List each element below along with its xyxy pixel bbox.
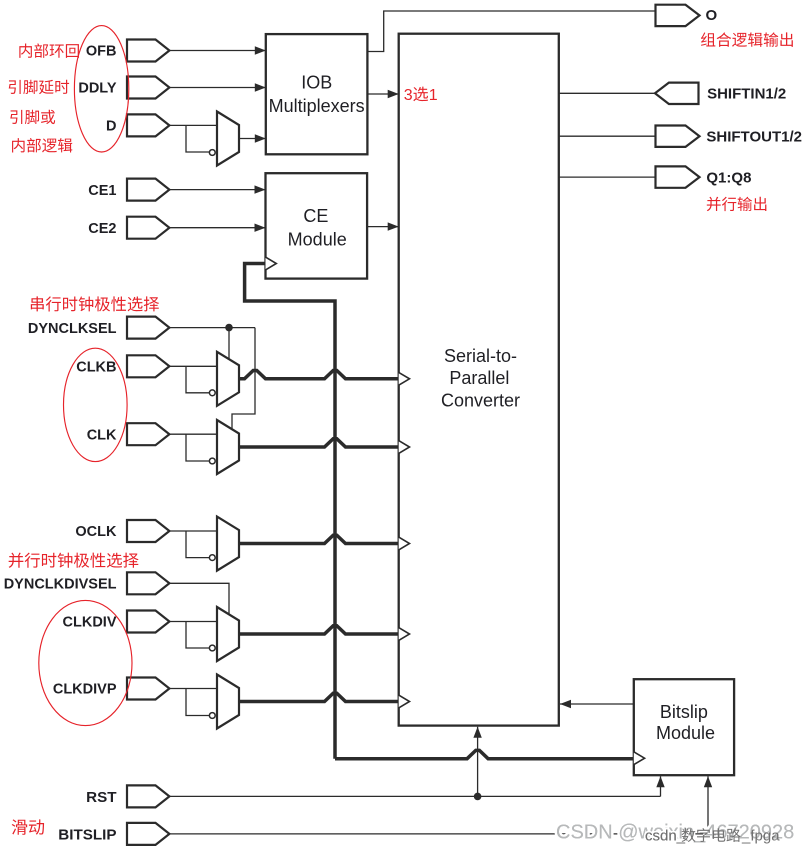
svg-text:RST: RST	[86, 789, 117, 806]
svg-text:Serial-to-: Serial-to-	[444, 346, 517, 366]
svg-text:_fpga: _fpga	[741, 828, 780, 845]
svg-text:Module: Module	[656, 723, 715, 743]
svg-text:Module: Module	[288, 229, 347, 249]
wire DYNCLKDIVSEL to mux M5 select	[169, 583, 229, 615]
svg-text:OCLK: OCLK	[75, 524, 117, 540]
junction dot RST	[474, 793, 482, 801]
input port SHIFTIN1/2	[655, 83, 699, 104]
svg-text:Q1:Q8: Q1:Q8	[706, 170, 751, 187]
svg-text:CLK: CLK	[87, 427, 117, 443]
inverter bubble of mux M5 (CLKDIV)	[209, 645, 215, 651]
wire IOB to converter	[367, 93, 398, 95]
wire CLKDIV to mux M5	[169, 621, 217, 623]
wire Bitslip to converter	[560, 703, 634, 705]
wire converter to Q1:Q8	[559, 176, 656, 178]
input port DDLY	[127, 77, 169, 99]
wire BITSLIP to Bitslip bottom	[169, 776, 709, 834]
wire IOB to O output	[367, 11, 655, 52]
clock chevron Bitslip Module	[634, 752, 645, 765]
wire CLK to mux M3	[169, 433, 217, 435]
annotation neibuhuanhui (internal loopback)	[19, 43, 79, 57]
svg-text:BITSLIP: BITSLIP	[58, 826, 116, 843]
input port OCLK	[127, 520, 169, 542]
wire CLKB inverted branch	[186, 366, 209, 393]
annotation yinjiaoyanshi (pin delay)	[9, 80, 69, 94]
svg-text:SHIFTOUT1/2: SHIFTOUT1/2	[706, 129, 802, 146]
wire converter to SHIFTOUT1/2	[559, 135, 656, 137]
mux M6 (CLKDIVP)	[217, 675, 239, 729]
svg-text:csdn_: csdn_	[645, 828, 686, 845]
output port Q1:Q8	[656, 166, 700, 187]
input port CLKB	[127, 355, 169, 377]
svg-text:DYNCLKSEL: DYNCLKSEL	[28, 321, 117, 337]
wire CLKDIV inverted branch	[186, 622, 209, 649]
svg-text:DDLY: DDLY	[78, 81, 116, 97]
wire OFB to IOB	[169, 50, 265, 52]
wire D inverted branch	[186, 125, 209, 152]
svg-text:CLKDIV: CLKDIV	[63, 615, 117, 631]
wire CLKDIVP inverted branch	[186, 689, 209, 716]
input port CE1	[127, 179, 169, 201]
svg-text:D: D	[106, 119, 116, 135]
input port CLK	[127, 423, 169, 445]
wire DYNCLKSEL horizontal	[169, 327, 255, 329]
wire CLKDIVP clock to converter	[239, 693, 399, 701]
svg-text:Parallel: Parallel	[449, 368, 509, 388]
svg-text:1: 1	[429, 87, 438, 104]
wire OCLK to mux M4	[169, 530, 217, 532]
input port OFB	[127, 40, 169, 62]
mux M4 (OCLK)	[217, 517, 239, 571]
block U4 Bitslip Module	[634, 679, 734, 775]
input port DYNCLKSEL	[127, 317, 169, 339]
inverter bubble of mux M3 (CLK)	[209, 458, 215, 464]
svg-text:O: O	[706, 7, 718, 24]
block U1 IOB Multiplexers	[266, 34, 368, 154]
wire D to mux M1	[169, 124, 217, 126]
annotation yinjiaohuo (pin or)	[10, 110, 55, 124]
wire RST to converter bottom	[477, 727, 479, 797]
wire CE2 to CE Module	[170, 227, 266, 229]
wire clock trunk to CE and Bitslip	[245, 264, 335, 759]
inverter bubble of mux M2 (CLKB)	[209, 390, 215, 396]
clock chevron CE Module	[266, 257, 277, 270]
mux M5 (CLKDIV)	[217, 607, 239, 661]
svg-text:Multiplexers: Multiplexers	[269, 96, 365, 116]
annotation parallel clock polarity select	[9, 553, 139, 568]
svg-text:Converter: Converter	[441, 390, 520, 410]
wire RST to Bitslip bottom	[660, 776, 662, 796]
wire CLK clock to converter	[239, 439, 399, 447]
svg-text:3: 3	[404, 87, 413, 104]
wire OCLK clock to converter	[239, 535, 399, 543]
svg-text:CLKDIVP: CLKDIVP	[53, 682, 117, 698]
svg-text:IOB: IOB	[301, 72, 332, 92]
inverter bubble of mux M6 (CLKDIVP)	[209, 713, 215, 719]
wire DYNCLKSEL to mux M3 select	[232, 328, 255, 430]
mux M3 (CLK)	[217, 420, 239, 474]
wire DYNCLKSEL to mux M2 select	[228, 328, 230, 361]
red ellipse around OFB DDLY D	[74, 26, 128, 152]
input port RST	[127, 785, 169, 807]
wire CLK inverted branch	[186, 434, 209, 461]
input port CLKDIV	[127, 611, 169, 633]
mux M2 (CLKB)	[217, 352, 239, 406]
annotation huadong (slip)	[12, 819, 44, 834]
red ellipse around CLKB CLK	[64, 348, 128, 461]
output port SHIFTOUT1/2	[656, 126, 700, 147]
wire CLKDIVP to mux M6	[169, 688, 217, 690]
inverter bubble of mux M4 (OCLK)	[209, 555, 215, 561]
input port CLKDIVP	[127, 678, 169, 700]
annotation parallel output	[707, 197, 767, 211]
svg-text:OFB: OFB	[86, 44, 117, 60]
svg-text:DYNCLKDIVSEL: DYNCLKDIVSEL	[4, 577, 117, 593]
inverter bubble of mux M1 (D polarity)	[209, 150, 215, 156]
wire DDLY to IOB	[169, 87, 265, 89]
input port D	[127, 114, 169, 136]
input port BITSLIP	[127, 823, 169, 845]
block U2 CE Module	[266, 173, 368, 278]
wire CE Module to converter	[367, 226, 399, 228]
svg-text:CE2: CE2	[88, 221, 116, 237]
wire mux M1 out to IOB	[239, 138, 266, 140]
svg-text:SHIFTIN1/2: SHIFTIN1/2	[707, 86, 786, 103]
output port O	[656, 5, 700, 26]
wire RST horizontal	[169, 795, 661, 797]
red ellipse around CLKDIV CLKDIVP	[39, 600, 132, 725]
wire CLKB clock to converter	[239, 371, 399, 379]
annotation neibuluoji (internal logic)	[12, 138, 72, 152]
wire converter to SHIFTIN1/2	[559, 92, 655, 94]
svg-text:CLKB: CLKB	[76, 360, 116, 376]
annotation combinational logic output	[701, 32, 793, 46]
input port CE2	[127, 217, 169, 239]
wire CLKDIV clock to converter	[239, 626, 399, 634]
annotation serial clock polarity select	[31, 296, 159, 311]
junction dot DYNCLKSEL	[225, 324, 233, 332]
wire OCLK inverted branch	[186, 531, 209, 558]
mux M1 (D polarity)	[217, 112, 239, 166]
svg-text:Bitslip: Bitslip	[660, 702, 708, 722]
svg-text:CE: CE	[303, 206, 328, 226]
wire CLKB to mux M2	[169, 365, 217, 367]
input port DYNCLKDIVSEL	[127, 572, 169, 594]
wire clock trunk to Bitslip Module	[335, 750, 634, 758]
wire CE1 to CE Module	[170, 189, 266, 191]
block U3 Serial-to-Parallel Converter	[399, 34, 559, 726]
svg-text:CE1: CE1	[88, 183, 116, 199]
